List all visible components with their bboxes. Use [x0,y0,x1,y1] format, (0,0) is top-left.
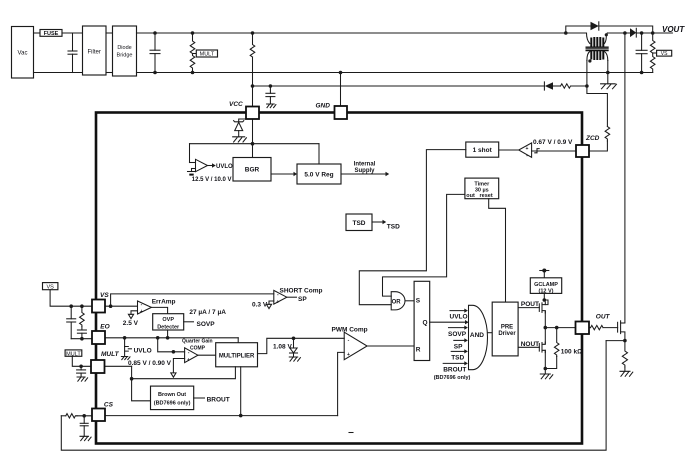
GND rail drop [339,71,343,106]
wire 1-shot to OR gate [359,150,466,305]
ground (VCC zener) [233,137,247,142]
MULT signal wire to multiplier [104,366,235,380]
wire ErrAmp to OVP [151,307,167,313]
aux winding left lead to ZCD feed node [585,61,589,88]
wire VS label to VS pin [50,290,92,308]
svg-text:PWM Comp: PWM Comp [332,327,368,334]
zener diode at VCC [234,119,246,137]
ground (1.08V zener) [289,357,300,361]
0.85V/0.90V reference [128,359,185,378]
svg-text:27 µA / 7 µA: 27 µA / 7 µA [189,309,226,316]
SP output [287,296,308,303]
transistor NMOS pull-down [539,342,545,353]
svg-text:5.0 V Reg: 5.0 V Reg [304,172,333,179]
svg-text:POUT: POUT [521,301,539,308]
capacitor C2 after bridge [150,31,160,74]
resistor divider lower [190,54,195,74]
BGR block [233,158,271,182]
svg-text:OUT: OUT [596,313,611,320]
zener 1.08V clamp [273,338,298,357]
CS sense resistor [61,414,92,418]
TSD block [346,214,372,231]
svg-text:(BD7696 only): (BD7696 only) [434,375,471,381]
op-amp ErrAmp [138,299,176,316]
svg-text:12.5 V / 10.0 V: 12.5 V / 10.0 V [192,177,232,183]
svg-text:Quarter Gain: Quarter Gain [182,338,213,344]
bottom rail wire [137,72,653,74]
multiplier output to PWM comp [258,337,345,354]
ZCD external wire and resistor [587,86,610,151]
wire Vac top to fuse [34,32,41,34]
battery reference 12.5V/10.0V [188,172,232,184]
svg-text:OR: OR [392,299,402,305]
wire OVP to EO line [167,330,169,338]
svg-text:1 shot: 1 shot [473,147,493,154]
svg-text:SOVP: SOVP [197,321,216,328]
svg-text:+: + [526,146,529,152]
comparator PWM Comp [332,327,368,360]
svg-text:MULT: MULT [101,351,120,358]
SOVP inverted input [448,326,468,338]
TSD output arrow [372,220,400,231]
SP inverted input [454,338,468,350]
pin ZCD [576,135,600,157]
Timer block [465,178,499,199]
wire VS to SHORT comp [111,294,274,306]
wire VS pin to error amp [105,304,138,308]
AND gate [469,305,493,369]
2.5V reference [123,311,139,327]
Diode Bridge block [113,26,137,76]
wire MOSFET source to sense line [606,340,625,342]
wire fuse to filter [62,32,83,34]
internal supply arrow [341,162,389,177]
ground (driver) [540,374,553,379]
diode D2 output rectifier [607,28,652,37]
wires filter to bridge [106,33,113,73]
svg-text:out: out [466,193,475,199]
capacitor CS filter [80,416,88,437]
svg-text:VCC: VCC [229,101,243,108]
VCC internal rail [190,119,320,158]
transformer T1 aux winding [587,50,608,62]
capacitor X1 across line [68,33,77,73]
svg-text:Driver: Driver [498,331,516,337]
output divider lower resistor [650,53,655,73]
svg-text:0.67 V / 0.9 V: 0.67 V / 0.9 V [533,139,573,146]
svg-text:NOUT: NOUT [521,341,539,348]
capacitor VS-EO outer [67,306,76,339]
transformer core [586,47,609,50]
svg-text:MULTIPLIER: MULTIPLIER [219,353,255,359]
MULT net label box [193,50,218,58]
resistor VS-EO compensation [80,306,85,326]
svg-text:Vac: Vac [18,51,28,57]
svg-text:BROUT: BROUT [443,366,466,373]
svg-text:Internal: Internal [354,162,376,168]
svg-text:+: + [140,309,143,315]
PWM comp output to R [367,345,414,347]
VS net label box (output divider tap) [653,50,672,57]
aux winding right lead to ground rail [606,61,610,84]
svg-text:-: - [526,153,528,159]
svg-text:-: - [348,338,350,344]
transistor external MOSFET [618,321,627,343]
pin GND [316,103,348,119]
svg-text:AND: AND [470,332,484,339]
pin OUT [576,322,590,335]
drain junction wire to OUT [544,311,577,343]
svg-text:VS: VS [661,51,668,57]
resistor divider upper (MULT sense) [190,31,195,54]
5.0V regulator block [297,144,341,184]
Filter block [83,26,107,75]
svg-text:BROUT: BROUT [207,396,230,403]
comparator Quarter Gain COMP [158,338,213,364]
multiplier to CS wire drop [240,367,242,416]
svg-text:GCLAMP: GCLAMP [534,282,558,288]
svg-text:SP: SP [454,344,463,351]
CS signal wire to PWM comp [105,352,344,417]
PRE Driver block [492,302,518,356]
Q output to AND gate [430,320,469,324]
output capacitor [636,31,647,74]
svg-text:Diode: Diode [117,45,131,51]
ground (MULT cap) [77,377,88,381]
svg-text:R: R [416,347,421,354]
svg-text:VOUT: VOUT [662,25,685,34]
VCC feed wire from aux winding [251,84,545,88]
1 shot block [466,142,519,157]
0.3V reference [252,301,274,309]
svg-text:BGR: BGR [245,167,260,174]
ground (aux winding) [601,84,617,89]
arrow BGR to regulator [271,172,297,176]
ground (UVLO switch) [121,357,130,360]
svg-text:0.85 V / 0.90 V: 0.85 V / 0.90 V [128,360,172,367]
svg-text:Supply: Supply [354,168,375,174]
NOUT wire [518,341,539,348]
pin EO [92,324,110,344]
sense resistor to ground [622,341,627,372]
POUT wire [518,301,539,308]
NMOS source to ground [544,350,546,374]
svg-text:MULT: MULT [200,52,215,58]
svg-text:OVP: OVP [162,317,174,323]
capacitor MULT filter [77,366,86,377]
svg-text:1.08 V: 1.08 V [273,344,292,351]
svg-text:VS: VS [100,292,109,299]
svg-text:TSD: TSD [387,224,400,231]
svg-text:(BD7696 only): (BD7696 only) [154,401,191,407]
pin VCC [229,101,259,119]
fuse F1 [40,30,62,37]
VS net label box (left) [43,283,58,291]
svg-text:PRE: PRE [501,324,513,330]
wire GCLAMP to PMOS source [543,293,549,304]
OR gate [391,292,414,310]
svg-text:Bridge: Bridge [117,53,133,59]
svg-text:CS: CS [104,402,114,409]
diode D3 VCC feed [544,82,560,90]
svg-text:TSD: TSD [353,220,366,227]
capacitor compensation series [77,327,86,339]
svg-text:0.3 V: 0.3 V [252,302,268,309]
OUT gate resistor [589,313,617,330]
svg-text:GND: GND [316,103,331,110]
svg-text:(12 V): (12 V) [539,288,554,294]
svg-text:UVLO: UVLO [216,164,233,170]
svg-text:SHORT Comp: SHORT Comp [280,288,323,295]
VCC startup resistor [250,31,255,57]
UVLO comparator [190,144,208,172]
svg-text:EO: EO [100,324,109,331]
svg-text:+: + [187,357,190,363]
Brown Out block [132,379,194,410]
svg-text:COMP: COMP [190,346,206,352]
Vac source box [12,27,34,79]
EO signal wire [105,336,238,343]
pin VS [92,292,109,313]
wire MULT label to MULT pin [72,356,91,368]
wire timer out to OR gate [383,194,465,296]
OVP Detecter block [153,314,184,331]
IC block outline [96,113,582,444]
VCC decoupling capacitor [266,84,275,104]
svg-text:MULT: MULT [66,351,81,357]
MULT net label box (left) [65,350,82,357]
SOVP output [184,321,216,328]
ground (CS cap) [80,436,91,440]
ground (sense resistor) [620,371,633,376]
svg-text:SP: SP [298,296,307,303]
TSD inverted input [451,349,468,361]
UVLO pulldown switch [125,338,152,356]
output divider upper resistor [650,33,655,53]
svg-text:UVLO: UVLO [134,347,152,354]
GCLAMP block [530,278,561,295]
svg-text:TSD: TSD [451,355,464,362]
wire startup resistor down to VCC pin [252,57,254,107]
resistor VCC feed [561,84,587,88]
wire timer reset from driver [489,199,506,302]
top rail wire [137,32,587,34]
VOUT node and label [651,25,685,35]
svg-text:+: + [347,352,350,358]
svg-text:SOVP: SOVP [448,331,467,338]
resistor 100k gate pulldown [544,328,583,371]
ZCD comparator [519,139,576,159]
svg-text:Brown Out: Brown Out [158,392,186,398]
MOSFET drain wire from transformer node [623,31,627,322]
27uA label [189,309,226,316]
svg-text:100 kΩ: 100 kΩ [561,349,582,356]
svg-text:S: S [416,297,421,304]
svg-text:FUSE: FUSE [44,31,59,37]
MULTIPLIER block [198,343,258,367]
comparator SHORT Comp [274,288,323,306]
svg-text:2.5 V: 2.5 V [123,320,139,327]
BROUT inverted input [434,361,471,381]
svg-text:+: + [276,299,279,305]
pin CS [92,402,114,422]
UVLO output arrow [208,163,234,170]
svg-text:ZCD: ZCD [585,135,600,142]
transformer T1 primary winding [587,33,608,47]
ground (VCC cap) [267,104,276,108]
svg-text:reset: reset [480,193,493,199]
svg-text:Detecter: Detecter [157,324,180,330]
diode D1 bypass [591,22,653,33]
svg-text:Q: Q [423,320,428,327]
BROUT output [194,396,230,403]
wire Vac bottom to filter [34,72,83,74]
UVLO inverted input [450,309,468,321]
svg-text:Filter: Filter [88,50,101,56]
wire to EO pin [71,337,92,341]
svg-text:UVLO: UVLO [450,314,468,321]
SR latch [414,281,430,360]
supply tap symbol [540,269,549,278]
tiny mark [349,432,353,434]
bypass diode branch wire [564,26,591,35]
pin MULT [91,351,120,373]
transistor PMOS pull-up [539,302,545,313]
bottom sense return wire [61,341,606,451]
svg-text:ErrAmp: ErrAmp [152,299,176,306]
